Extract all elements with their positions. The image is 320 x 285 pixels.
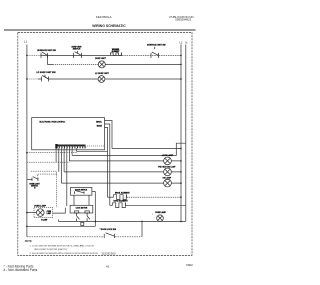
broil element rung: [108, 195, 181, 200]
svg-text:SWITCH: SWITCH: [73, 49, 81, 51]
switch S3 surface unit sw right: [151, 52, 159, 58]
svg-text:PRE HEAT IND LAMP: PRE HEAT IND LAMP: [158, 165, 176, 168]
switch S1 surface unit sw left: [41, 52, 48, 58]
svg-text:LF SURF UNIT SW: LF SURF UNIT SW: [36, 72, 56, 74]
lock motor box: [70, 205, 93, 213]
bus2: [59, 220, 186, 222]
svg-text:SURF UNIT: SURF UNIT: [95, 58, 106, 60]
lamp rung pre heat: [64, 171, 181, 173]
harness verticals from connector strip: [56, 148, 108, 206]
svg-text:OVEN LAMP: OVEN LAMP: [34, 204, 47, 207]
junction L2 rung3: [180, 78, 182, 80]
wire L1 vertical: [26, 45, 28, 237]
wire strip-right continuation: [85, 145, 105, 147]
wire rung 2: [53, 63, 98, 65]
wire lamp right riser: [53, 208, 66, 214]
svg-text:N: N: [185, 40, 187, 44]
dashed wire L1 y152.7: [27, 152, 77, 154]
EOC connector strip: [55, 144, 85, 149]
svg-text:OVEN: OVEN: [47, 211, 51, 213]
EOC pin stub 1: [105, 121, 113, 149]
svg-text:LOCK MOTOR: LOCK MOTOR: [76, 208, 88, 210]
svg-text:ELECTRONIC OVEN CONTROL: ELECTRONIC OVEN CONTROL: [40, 122, 66, 124]
oven lamp: [37, 209, 45, 217]
surface element LF circle: [98, 76, 105, 83]
svg-text:# - Non-Illustrated Parts: # - Non-Illustrated Parts: [4, 268, 38, 272]
dashed wire L1 y162.2: [27, 161, 70, 163]
wire lamp left stub: [27, 212, 37, 214]
wire rung 1: [27, 54, 41, 56]
bus1: [27, 225, 96, 227]
junction L2 rung2: [180, 64, 182, 66]
chassis dashed line with door lock switch: [27, 236, 104, 238]
svg-text:ON LAMP: ON LAMP: [162, 177, 171, 180]
svg-text:SWITCH: SWITCH: [31, 185, 38, 187]
junction L2 rung1: [180, 55, 182, 57]
bake element rung: [110, 203, 186, 208]
svg-text:SURFACE UNIT SW: SURFACE UNIT SW: [37, 49, 56, 52]
surface element RF circle: [98, 61, 105, 68]
svg-text:UNLOCKED POSITION (CAVITY): UNLOCKED POSITION (CAVITY): [34, 248, 67, 251]
wire rung 3: [27, 78, 38, 80]
junction L1 rung1: [26, 55, 28, 57]
EOC electronic oven control box: [32, 118, 105, 150]
wire door box right drop: [92, 192, 95, 227]
wire L2 vertical: [180, 45, 182, 222]
svg-text:ELEMENT: ELEMENT: [112, 51, 120, 53]
svg-text:*: *: [152, 213, 153, 217]
svg-text:* DOOR LOCK SW: * DOOR LOCK SW: [100, 229, 117, 231]
svg-text:L2: L2: [179, 40, 183, 44]
svg-text:LOCK LAMP: LOCK LAMP: [162, 154, 174, 157]
dashed wire y171.2 to drop: [31, 171, 57, 207]
svg-text:41: 41: [106, 264, 110, 268]
svg-text:5995394821: 5995394821: [175, 17, 191, 21]
svg-text:310332300: 310332300: [101, 252, 115, 256]
schematic border frame: [18, 32, 192, 255]
EOC pin stub 3: [105, 128, 108, 198]
svg-text:1. LOCK SWITCH SHOWN WITH DOO: 1. LOCK SWITCH SHOWN WITH DOOR CLOSED AN…: [30, 244, 94, 247]
svg-text:BROIL: BROIL: [96, 121, 102, 123]
door switch box: [71, 187, 92, 195]
wire door box bottom pin 1: [73, 195, 75, 205]
EOC pin stub 2: [105, 124, 110, 205]
bus2 drop to chassis line: [141, 221, 143, 236]
svg-text:SURFACE UNIT SW: SURFACE UNIT SW: [147, 43, 166, 46]
wire drop S1 to rung2: [48, 55, 54, 64]
lock motor terminal notch 2: [85, 211, 89, 213]
wire door box bottom pin 2: [88, 195, 90, 205]
oven cavity lamp: [157, 215, 164, 222]
connector link bus2 to bus1: [81, 222, 84, 225]
junction L1 rung3: [26, 78, 28, 80]
svg-text:NOTE:: NOTE:: [25, 240, 33, 243]
wire line A to L2: [112, 148, 181, 150]
svg-text:LF SURF UNIT: LF SURF UNIT: [95, 73, 109, 75]
wire N jog: [72, 143, 186, 155]
oven lamp enclosure: [34, 207, 53, 217]
svg-text:BAKE ELEMENT: BAKE ELEMENT: [114, 200, 129, 203]
wire N vertical: [185, 45, 187, 222]
svg-text:WIRING SCHEMATIC: WIRING SCHEMATIC: [92, 24, 126, 28]
switch S4 LF surface unit sw: [38, 75, 52, 82]
svg-text:L1: L1: [24, 39, 28, 43]
oven light switch: [27, 177, 38, 181]
svg-text:0902: 0902: [186, 263, 193, 267]
svg-text:OVEN LAMP: OVEN LAMP: [155, 211, 166, 214]
lamp rung lock lamp: [69, 160, 181, 162]
svg-text:2. DOOR SWITCH SHOWN WITH OVE: 2. DOOR SWITCH SHOWN WITH OVEN DOOR IN O…: [30, 253, 98, 255]
svg-text:FEF350GA: FEF350GA: [96, 15, 112, 19]
lock motor terminal notch 1: [75, 211, 79, 213]
switch S2 surface unit sw center (bold label): [74, 51, 82, 58]
dashed wire y174.1 to switch: [38, 174, 57, 177]
svg-text:BROIL ELEMENT: BROIL ELEMENT: [115, 192, 131, 194]
header rule: [4, 29, 196, 31]
warmer element on rung1: [111, 53, 122, 56]
lamp rung on lamp: [61, 182, 181, 184]
svg-text:BAKE: BAKE: [97, 124, 103, 127]
